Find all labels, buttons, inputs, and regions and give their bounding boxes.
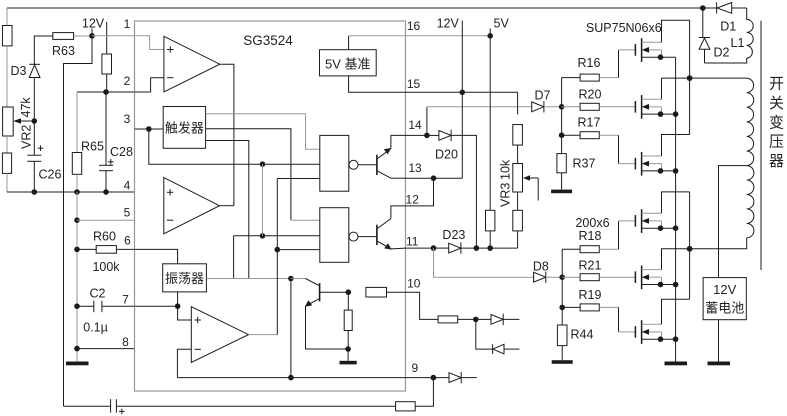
wire pin7 to comparator noninv [178, 306, 192, 320]
svg-text:R60: R60 [93, 230, 116, 244]
wire G1 output [358, 164, 377, 166]
svg-text:10: 10 [407, 277, 421, 291]
node 5V/pin16 [487, 33, 493, 39]
wire Q2 collector to pin12 [391, 206, 406, 219]
wire to R16 [562, 77, 581, 79]
node osc output junction [288, 276, 294, 282]
node riser tap gate2 [275, 247, 281, 253]
svg-text:200x6: 200x6 [575, 216, 609, 230]
svg-text:D1: D1 [720, 19, 736, 33]
node ramp tap upper [260, 161, 266, 167]
wire to R21 [562, 276, 580, 278]
wire M1 gate jog [618, 50, 620, 78]
wire resistor to emitter node [347, 331, 349, 350]
wire pin7 to oscillator bottom [177, 292, 179, 306]
wire lower bank vertical [561, 249, 563, 325]
wire 5Vref top to pin16 row [348, 36, 350, 50]
wire to VR3 [517, 145, 519, 164]
svg-text:11: 11 [406, 235, 419, 249]
node D7/R20 junction [559, 104, 565, 110]
transformer primary upper winding [747, 78, 754, 166]
svg-text:5: 5 [124, 206, 131, 220]
node source bus M3 [673, 168, 679, 174]
transistor Q2 collector diagonal [377, 219, 391, 229]
wire ground bus (pin-4 row) [7, 191, 135, 193]
wire D23 to VR3 chain [461, 247, 518, 249]
wire R17 to gate jog M3 [599, 134, 618, 136]
wire pin9 row outside [406, 377, 450, 379]
wire D7 feed row (gray) [427, 106, 532, 108]
op-amp U1c plus sign [195, 319, 201, 321]
wire Q3 base to pin10 node [320, 291, 349, 293]
wire 12V supply line [461, 21, 463, 179]
wire pin-1 row (gray) [92, 36, 164, 50]
op-amp U1b (C.L. amplifier) [164, 178, 220, 234]
wire drain link row y78 [662, 77, 690, 79]
wire to R17 [562, 134, 581, 136]
wire D20 to drop line [451, 135, 476, 248]
svg-text:R19: R19 [579, 288, 602, 302]
MOSFET M6 (SUP75N06) [634, 326, 636, 338]
wire to R20 [562, 106, 581, 108]
MOSFET M4 (SUP75N06) [634, 215, 636, 227]
node pin9 junction [431, 375, 437, 381]
wire node to C26 [33, 121, 35, 155]
svg-text:6: 6 [124, 234, 131, 248]
diode D7 [532, 102, 544, 112]
op-amp U1a minus sign [167, 77, 173, 79]
node pin7 tap [74, 303, 80, 309]
svg-text:SUP75N06x6: SUP75N06x6 [586, 21, 662, 35]
node source bus M4 [673, 225, 679, 231]
wire C2 to box pin7 [102, 305, 135, 307]
wire M4 drain riser [662, 192, 690, 213]
transistor Q1 emitter diagonal [377, 149, 391, 159]
node pin-3 junction [146, 126, 152, 132]
wire R16 to gate jog M1 [599, 77, 618, 79]
wire D2 line top [702, 8, 704, 38]
diode D20 [427, 134, 439, 136]
ground symbol R44 [561, 346, 563, 361]
svg-text:L1: L1 [731, 36, 745, 50]
wire pin9 to comparator inverting [177, 349, 191, 377]
transformer primary lower winding [747, 166, 754, 238]
svg-text:R16: R16 [578, 56, 601, 70]
wire M5 drain riser [662, 249, 690, 270]
svg-text:变: 变 [769, 115, 784, 132]
wire U1c output riser [276, 179, 278, 335]
wire M6 gate jog [618, 307, 620, 332]
block trigger (flip-flop) [163, 107, 205, 149]
wire R20 to M2 gate (gray) [599, 106, 635, 108]
resistor R65 [72, 153, 81, 175]
resistor above VR3 [513, 125, 523, 146]
wire pin10 jog [406, 292, 439, 319]
node top bus / D1 / D2 [700, 5, 706, 11]
wire pin-16 row (gray) [349, 35, 491, 37]
transistor Q2 base bar [376, 225, 378, 245]
wire oscillator ramp output (gray) [206, 278, 305, 280]
wire R65 to bus [76, 174, 78, 192]
svg-text:R18: R18 [579, 229, 602, 243]
node C28/ground-bus [103, 189, 109, 195]
node pin-7 junction [175, 303, 181, 309]
wire R60 to box pin6 [116, 248, 134, 250]
wire M1 drain riser [662, 20, 690, 42]
resistor left-lower (unlabeled) [2, 153, 11, 173]
MOSFET M1 (SUP75N06) [634, 44, 636, 56]
wire Q3-node drop to pin9 row [290, 279, 292, 378]
svg-text:R21: R21 [579, 259, 602, 273]
node R19 junction [559, 305, 565, 311]
wire pin12 jog to pin13 [406, 178, 434, 206]
potentiometer VR2 body [3, 107, 14, 136]
wire M4 gate jog [618, 221, 620, 249]
svg-text:触发器: 触发器 [165, 121, 204, 136]
svg-text:12V: 12V [713, 282, 736, 297]
wire riser x233.6 [233, 236, 235, 279]
capacitor bottom electrolytic [110, 399, 112, 412]
wire R21 to M5 gate (gray) [599, 276, 635, 278]
wire R18 to gate jog M4 [599, 248, 618, 250]
svg-text:R37: R37 [573, 157, 596, 171]
wire M3 drain riser [662, 135, 690, 157]
MOSFET M3 (SUP75N06) [634, 158, 636, 170]
wire D3 to VR2 node [33, 78, 35, 122]
battery box 12V [703, 278, 746, 320]
resistor interior vertical [344, 310, 352, 330]
wire R63-left to D3 line [34, 36, 53, 64]
svg-text:D7: D7 [535, 89, 551, 103]
wire osc node to Q3 (gray) [291, 278, 306, 280]
svg-text:3: 3 [124, 112, 131, 126]
wire gray ramp link [262, 164, 264, 236]
ground symbol source bus [665, 362, 688, 366]
transistor Q3 collector diagonal [306, 279, 320, 286]
wire 12V drop to bottom bus [64, 36, 93, 407]
node C26/ground-bus [32, 189, 38, 195]
svg-text:D3: D3 [11, 64, 27, 78]
svg-text:R65: R65 [81, 140, 104, 154]
resistor pin10 outside [438, 316, 458, 323]
wire pin14 riser to D7 row [426, 107, 428, 136]
wire flipflop output-a (gray) [206, 114, 320, 150]
svg-text:15: 15 [407, 77, 421, 91]
wire resistor to node [458, 318, 476, 320]
svg-text:1: 1 [124, 17, 131, 31]
transistor Q1 collector diagonal [377, 171, 391, 179]
svg-text:R63: R63 [52, 44, 75, 58]
wire pin-5 row [77, 219, 135, 221]
svg-text:0.1µ: 0.1µ [83, 321, 108, 335]
resistor R44 [557, 325, 567, 346]
wire M6 gate feed (gray) [619, 331, 636, 333]
wire R19 to gate jog M6 [599, 306, 618, 308]
wire flipflop output-c [206, 141, 249, 279]
wire left rail middle [6, 46, 8, 107]
svg-text:关: 关 [769, 95, 784, 112]
transistor Q3 emitter diagonal [306, 299, 320, 306]
wire upper bank vertical [561, 78, 563, 154]
wire resistor to pin10 [387, 291, 406, 293]
potentiometer VR3 wiper [529, 177, 538, 179]
resistor R16 [580, 74, 599, 81]
ground symbol battery [708, 362, 731, 366]
wire pin-2 row [77, 91, 135, 93]
wire R63 to 12V node [74, 35, 92, 37]
resistor R20 [580, 103, 599, 110]
svg-text:C26: C26 [39, 168, 62, 182]
op-amp U1b minus sign [167, 219, 173, 221]
wire pin-3 row [135, 128, 164, 130]
resistor R17 [580, 132, 599, 139]
svg-text:9: 9 [411, 361, 418, 375]
MOSFET M5 (SUP75N06) [634, 271, 636, 283]
potentiometer VR3 body [513, 164, 523, 193]
wire Q1 collector to pin13 [391, 177, 406, 179]
diode D23 [434, 247, 449, 249]
node 12V [89, 33, 95, 39]
svg-text:D23: D23 [442, 228, 465, 242]
wire pin10-node down to resistor [347, 292, 349, 310]
svg-text:7: 7 [122, 293, 129, 307]
wire center tap to battery [719, 166, 747, 278]
svg-text:D20: D20 [435, 148, 458, 162]
wire pin-7 row [135, 305, 178, 307]
ground symbol R37 [561, 173, 563, 190]
node pin6 tap [74, 247, 80, 253]
svg-text:振荡器: 振荡器 [165, 271, 204, 286]
resistor below VR3 [513, 210, 523, 231]
IC U1 SG3524 outline [135, 21, 406, 391]
wire left rail top segment [6, 8, 8, 26]
resistor on 5V line [486, 210, 495, 231]
wire output-b into gate2 (gray) [291, 219, 320, 221]
wire bottom bus left segment [64, 405, 111, 407]
node R17/R37 junction [559, 132, 565, 138]
gate G1 body [320, 135, 349, 191]
svg-text:10k: 10k [499, 159, 513, 180]
svg-text:100k: 100k [92, 260, 120, 274]
wire pin-8 row [77, 348, 135, 350]
node drain bus upper junction [687, 75, 693, 81]
svg-text:8: 8 [122, 335, 129, 349]
resistor R19 [580, 304, 599, 311]
resistor R63 [53, 33, 74, 40]
block oscillator [163, 264, 207, 292]
wire source bus [675, 57, 677, 361]
wire 5V supply line [489, 29, 491, 211]
node 5V-line/pin11 [487, 245, 493, 251]
wire U1c output (gray) [249, 334, 278, 336]
wire to R18 [562, 248, 580, 250]
transformer core line [760, 21, 762, 270]
wire drain bus upper [689, 20, 691, 134]
wire D2 to L1 bottom [704, 49, 706, 63]
node pin2 junction [103, 89, 109, 95]
node drain bus lower junction [687, 246, 693, 252]
wire left rail bottom segment [6, 173, 8, 192]
svg-text:47k: 47k [19, 97, 33, 118]
svg-text:开: 开 [769, 75, 784, 92]
wire R37 stem top [561, 153, 563, 155]
wire C28 to ground bus [105, 171, 107, 192]
ground symbol interior [347, 349, 349, 361]
svg-text:14: 14 [408, 118, 422, 132]
node VR2 wiper junction [32, 118, 38, 124]
svg-text:4: 4 [124, 179, 131, 193]
wire row y236 to gate2 [234, 235, 320, 237]
wire Q1 emitter to pin14 [391, 135, 406, 148]
ground symbol (left rail) [66, 362, 89, 366]
wire pin2 node down to C28 [105, 92, 107, 165]
svg-text:SG3524: SG3524 [243, 33, 293, 48]
node row236 tap [260, 233, 266, 239]
potentiometer VR2 wiper arrow [20, 120, 34, 122]
wire M3 gate jog [618, 135, 620, 163]
resistor left-top (unlabeled) [2, 26, 12, 46]
wire 12V aux line [106, 22, 108, 54]
node rail/bus [74, 189, 80, 195]
wire M1 gate feed (gray) [619, 49, 636, 51]
resistor R60 [96, 246, 116, 254]
wire resistor to pin2 node [106, 74, 108, 92]
node 12V/pin15 [460, 90, 466, 96]
svg-text:5V 基准: 5V 基准 [325, 56, 371, 71]
resistor (12V to pin2, unlabeled) [102, 54, 112, 74]
wire pin3 riser to comparator row [149, 129, 320, 164]
diode D8 [534, 272, 546, 282]
wire M4 gate feed (gray) [619, 220, 636, 222]
wire pin7 to C2 [77, 305, 94, 307]
node pin9 interior junction [288, 375, 294, 381]
svg-text:12V: 12V [82, 17, 105, 31]
node D8/R21 junction [559, 274, 565, 280]
node pin8 tap [74, 346, 80, 352]
diode D3 [29, 63, 40, 65]
wire left rail below VR2 [6, 136, 8, 153]
svg-text:12V: 12V [437, 16, 460, 30]
svg-text:13: 13 [408, 161, 422, 175]
svg-text:VR2: VR2 [20, 125, 34, 149]
transistor Q1 base bar [376, 155, 378, 175]
wire pin11 drop to D8 row [434, 248, 534, 277]
node pin5 tap [74, 217, 80, 223]
node emitter/resistor junction [345, 346, 351, 352]
wire Q2 emitter to pin11 [391, 247, 406, 250]
wire M6 drain riser [662, 299, 690, 324]
diode pin10 lower (left) [492, 344, 494, 354]
resistor R18 [580, 246, 599, 253]
svg-text:VR3: VR3 [499, 183, 513, 207]
diode pin10 upper (right) [476, 318, 491, 320]
capacitor C2 [93, 301, 95, 313]
gate G2 body [320, 208, 349, 263]
svg-text:器: 器 [769, 153, 784, 170]
diode D1 [703, 7, 717, 9]
svg-text:R17: R17 [578, 116, 601, 130]
diode pin9 [449, 373, 461, 383]
wire to R19 [562, 306, 580, 308]
wire primary bottom to drain bus [690, 238, 747, 249]
wire G2 output [358, 236, 377, 238]
node source bus M5 [673, 282, 679, 288]
resistor bottom-bus (unlabeled) [396, 402, 416, 411]
wire riser to gate2 input3 [277, 249, 320, 251]
wire pin-9 row interior [177, 377, 405, 379]
node pin10 diode junction [473, 317, 479, 323]
gate G2 bubble [349, 232, 358, 241]
wire VR3 chain bottom [517, 231, 519, 248]
node D20-line/pin11 [474, 245, 480, 251]
node source bus M2 [673, 111, 679, 117]
svg-text:R44: R44 [571, 328, 594, 342]
transistor Q2 emitter diagonal [377, 241, 391, 249]
node pin14 junction [424, 133, 430, 139]
op-amp U1c minus sign [195, 348, 201, 350]
wire M3 gate feed (gray) [619, 163, 636, 165]
node pin10 interior [346, 289, 352, 295]
resistor R37 [557, 154, 566, 173]
node source bus M6 [673, 336, 679, 342]
op-amp U1b plus sign [167, 191, 173, 193]
capacitor C28 electrolytic [99, 164, 113, 166]
wire 5V line to pin11 row [489, 231, 491, 248]
wire pin13 row [406, 177, 463, 179]
wire VR3 to lower resistor [517, 192, 519, 210]
wire bottom bus middle [116, 405, 395, 407]
wire pin14 stub [406, 134, 427, 136]
node pin13 junction [431, 175, 437, 181]
op-amp U1c (PWM comparator) [191, 307, 248, 363]
svg-text:5V: 5V [494, 16, 510, 30]
wire drain bus lower [689, 192, 691, 299]
svg-text:D8: D8 [533, 259, 549, 273]
wire U1a output down [220, 64, 234, 206]
wire VR3 chain top [517, 92, 519, 114]
MOSFET M2 (SUP75N06) [634, 101, 636, 113]
svg-text:C28: C28 [110, 145, 133, 159]
svg-text:2: 2 [124, 74, 131, 88]
node pin11 junction [431, 245, 437, 251]
wire pin-6 jog to oscillator [135, 249, 178, 263]
wire pin2 corner down (gray rail top) [76, 92, 78, 152]
wire gray rail pins5-8 [76, 192, 78, 362]
wire top bus 12V-output rail [7, 7, 703, 9]
wire node down to lower diode [476, 319, 493, 349]
wire 12V label stub [91, 29, 93, 36]
wire Q3 emitter down [306, 306, 349, 349]
svg-text:16: 16 [407, 19, 421, 33]
svg-text:12: 12 [406, 192, 420, 206]
svg-text:D2: D2 [714, 46, 730, 60]
wire riser to gate1 input3 [277, 178, 320, 180]
transistor Q3 bar [319, 283, 321, 301]
svg-text:R20: R20 [579, 88, 602, 102]
svg-text:C2: C2 [90, 287, 106, 301]
wire bottom bus to pin9 drop [415, 378, 433, 406]
capacitor C26 electrolytic [27, 154, 41, 156]
wire battery to ground [718, 320, 720, 362]
wire flipflop output-b [206, 129, 291, 220]
block 5V reference [320, 50, 377, 76]
diode D2 [699, 37, 710, 39]
wire M2 drain riser [661, 78, 663, 99]
wire 5Vref bottom to pin15 row [349, 76, 518, 92]
wire pin11 row [406, 247, 434, 249]
resistor R21 [580, 274, 599, 281]
wire pin6 to R60 [77, 248, 96, 250]
